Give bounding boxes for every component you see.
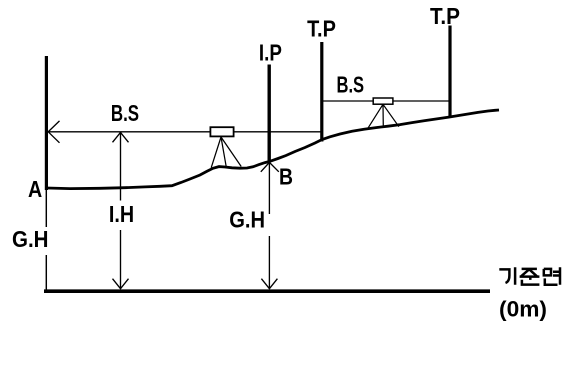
ground line <box>47 110 499 189</box>
svg-text:G.H: G.H <box>229 206 265 232</box>
G.H left line upper segment <box>45 190 47 228</box>
G.H left line lower segment <box>45 255 47 291</box>
I.H arrow up arrowhead <box>113 133 129 143</box>
svg-text:A: A <box>28 176 42 202</box>
rod I.P <box>268 65 271 163</box>
G.H right up arrowhead <box>261 162 279 171</box>
sight line B.S 2 <box>323 100 450 102</box>
svg-text:T.P: T.P <box>430 3 460 29</box>
svg-text:B: B <box>279 164 293 190</box>
svg-text:B.S: B.S <box>111 100 139 126</box>
I.H arrow down arrowhead <box>113 279 129 289</box>
I.H arrow upper segment <box>120 132 122 200</box>
svg-text:(0m): (0m) <box>499 297 547 322</box>
rod T.P 1 <box>320 42 323 142</box>
staff rod A <box>45 56 48 190</box>
svg-text:T.P: T.P <box>307 15 336 41</box>
I.H arrow lower segment <box>120 230 122 289</box>
datum line <box>44 289 490 293</box>
svg-text:G.H: G.H <box>12 226 49 252</box>
label gijunmyeon (datum plane) hand-drawn hangul <box>499 267 560 285</box>
level instrument 1 body <box>210 127 233 136</box>
tripod 2 legs <box>368 104 399 128</box>
G.H right down arrowhead <box>261 279 277 289</box>
sight line 1 left arrowhead <box>48 121 59 143</box>
svg-text:B.S: B.S <box>337 72 365 98</box>
G.H right arrow upper segment <box>268 163 270 215</box>
tripod 1 legs <box>211 137 241 168</box>
svg-text:I.P: I.P <box>259 39 282 65</box>
level instrument 2 body <box>373 98 393 104</box>
svg-text:I.H: I.H <box>109 201 134 227</box>
rod T.P 2 <box>448 26 451 118</box>
sight line B.S 1 <box>48 131 321 133</box>
G.H right arrow lower segment <box>268 236 270 289</box>
